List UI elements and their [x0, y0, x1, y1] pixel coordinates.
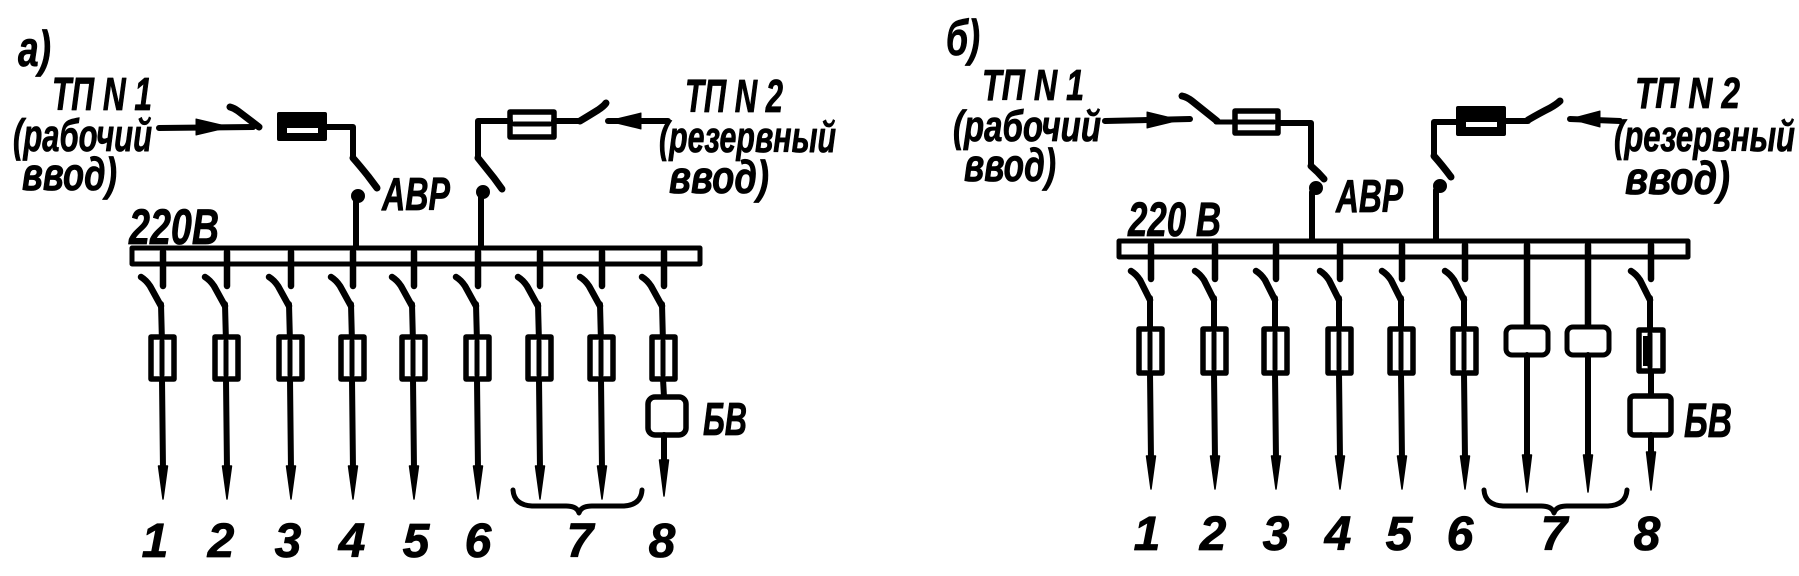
wire: bus tap tick feeder 2 — [224, 252, 231, 286]
svg-text:ввод): ввод) — [964, 139, 1056, 191]
svg-text:4: 4 — [338, 515, 366, 568]
fuse feeder 8 — [652, 337, 675, 379]
node: AVR-1 contact dot, diagram a — [352, 190, 365, 203]
wire: bus tap tick feeder 1 — [160, 252, 167, 286]
bracket (group 7), diagram a — [513, 490, 642, 513]
arrow tip feeder 5 — [410, 466, 419, 499]
svg-text:7: 7 — [567, 515, 596, 568]
switch blade feeder 5 — [392, 277, 412, 306]
wire feeder b5 upper — [1398, 298, 1404, 335]
wire: input 2 with left arrow, diagram b — [1570, 111, 1620, 127]
switch blade feeder 1 — [141, 277, 161, 306]
fuse feeder 5 — [402, 337, 425, 379]
label BV, diagram b — [1684, 395, 1732, 448]
arrow tip feeder 3 — [287, 466, 296, 499]
bus 220V, diagram a — [132, 248, 700, 264]
svg-text:6: 6 — [1447, 508, 1474, 561]
wire feeder 7a lower — [539, 379, 540, 470]
diagram b) label — [946, 10, 980, 66]
arrow tip feeder 7b — [598, 466, 607, 499]
switch blade feeder 8 — [642, 277, 662, 306]
wire feeder b1 upper — [1147, 298, 1153, 335]
svg-text:АВР: АВР — [1335, 170, 1403, 222]
svg-text:ввод): ввод) — [669, 151, 769, 203]
load numbers 1-8, diagram b — [1134, 508, 1661, 561]
svg-text:8: 8 — [1634, 508, 1661, 561]
wire feeder 1 lower — [162, 379, 163, 470]
arrow tip feeder b2 — [1211, 456, 1220, 489]
wire feeder b7b (no switch) — [1585, 245, 1592, 329]
label AVR, diagram a — [381, 168, 450, 220]
switch blade feeder 3 — [269, 277, 289, 306]
arrow tip feeder 8 — [660, 460, 669, 496]
node: AVR-2 contact dot, diagram a — [477, 186, 490, 199]
switch blade feeder 7b — [580, 277, 600, 306]
wire feeder 6 upper — [476, 304, 477, 343]
svg-text:1: 1 — [142, 515, 169, 568]
wire: bus tap tick feeder 4 — [350, 252, 357, 286]
wire feeder b8 to BV box — [1648, 371, 1654, 397]
switch blade feeder b6 — [1445, 271, 1464, 300]
wire: input 1 with right arrow, diagram b — [1105, 112, 1190, 128]
svg-text:5: 5 — [403, 515, 431, 568]
svg-text:4: 4 — [1324, 508, 1352, 561]
arrow tip feeder b6 — [1461, 456, 1470, 489]
label BV, diagram a — [703, 393, 747, 445]
wire: bus tap tick feeder b8 — [1648, 245, 1655, 279]
fuse feeder 1 — [151, 337, 174, 379]
wire feeder b4 upper — [1336, 298, 1342, 335]
fuse feeder 2 — [215, 337, 238, 379]
wire feeder b4 lower — [1339, 373, 1340, 460]
wire feeder 2 upper — [225, 304, 226, 343]
fuse feeder 3 — [279, 337, 302, 379]
fuse feeder 4 — [341, 337, 364, 379]
wire: bus tap tick feeder 3 — [288, 252, 295, 286]
wire feeder b2 lower — [1214, 373, 1215, 460]
wire: input 1 with right arrow, diagram a — [159, 119, 253, 135]
label TP N2 (reserve input), diagram a — [659, 70, 836, 203]
switch blade feeder b5 — [1382, 271, 1401, 300]
svg-text:БВ: БВ — [1684, 395, 1732, 448]
wire: bus tap tick feeder 7a — [537, 252, 544, 286]
wire feeder 4 lower — [352, 379, 353, 470]
switch Q1 blade (input 1), diagram a — [230, 107, 259, 127]
switch blade feeder b8 — [1631, 271, 1650, 300]
label 220V, diagram a — [128, 199, 219, 255]
fuse feeder 6 — [466, 337, 489, 379]
wire feeder 6 lower — [477, 379, 478, 470]
fuse feeder b6 — [1453, 329, 1476, 373]
arrow tip feeder 4 — [349, 466, 358, 499]
wire: fuse F1 to corner, down, diagram a — [325, 127, 353, 158]
bus 220V, diagram b — [1119, 241, 1688, 257]
arrow tip feeder 6 — [474, 466, 483, 499]
fuse feeder b1 — [1139, 329, 1162, 373]
label 220V, diagram b — [1127, 194, 1221, 247]
arrow tip feeder b4 — [1336, 456, 1345, 489]
wire feeder 7b lower — [601, 379, 602, 470]
switch blade feeder 2 — [205, 277, 225, 306]
wire: AVR-2 drop to bus, diagram a — [478, 195, 484, 250]
node: AVR-2 contact dot, diagram b — [1434, 180, 1447, 193]
wire: bus tap tick feeder b3 — [1273, 245, 1280, 279]
wire: bus tap tick feeder 5 — [411, 252, 418, 286]
fuse feeder 7b — [590, 337, 613, 379]
svg-text:8: 8 — [649, 515, 676, 568]
label TP N1 (working input), diagram b — [953, 61, 1101, 191]
wire: corner to fuse F2, diagram b — [1434, 121, 1528, 156]
wire: bus tap tick feeder 6 — [475, 252, 482, 286]
arrow tip feeder b3 — [1272, 456, 1281, 489]
switch blade feeder 7a — [518, 277, 538, 306]
switch AVR-2 blade, diagram b — [1434, 156, 1451, 177]
svg-text:6: 6 — [465, 515, 492, 568]
label AVR, diagram b — [1335, 170, 1403, 222]
svg-text:2: 2 — [1199, 508, 1227, 561]
switch Q2 blade (input 2), diagram b — [1528, 101, 1560, 120]
label TP N2 (reserve input), diagram b — [1614, 69, 1795, 204]
wire: bus tap tick feeder 8 — [661, 252, 668, 286]
wire feeder 1 upper — [161, 304, 162, 343]
switch blade feeder b2 — [1195, 271, 1214, 300]
switch Q2 blade (input 2), diagram a — [580, 103, 606, 121]
fuse feeder b3 — [1264, 329, 1287, 373]
svg-text:3: 3 — [275, 515, 302, 568]
wire: AVR-1 drop to bus, diagram a — [353, 199, 359, 250]
arrow tip feeder 1 — [159, 466, 168, 499]
fuse F1 (input 1, filled), diagram a — [279, 114, 325, 139]
wire feeder 8 lower — [661, 435, 667, 462]
wire: bus tap tick feeder 7b — [599, 252, 606, 286]
fuse feeder b8 (filled) — [1639, 330, 1663, 371]
switch AVR-1 blade, diagram b — [1311, 166, 1324, 179]
wire: input 2 with left arrow, diagram a — [608, 113, 668, 129]
svg-text:ТП N 2: ТП N 2 — [1635, 69, 1740, 118]
arrow tip feeder 2 — [223, 466, 232, 499]
wire feeder 2 lower — [226, 379, 227, 470]
breaker box feeder b7a — [1506, 327, 1548, 355]
wire: AVR-2 drop to bus, diagram b — [1433, 190, 1439, 243]
fuse feeder b4 — [1328, 329, 1351, 373]
wire: bus tap tick feeder b1 — [1148, 245, 1155, 279]
switch AVR-1 blade, diagram a — [353, 158, 377, 188]
wire: bus tap tick feeder b5 — [1399, 245, 1406, 279]
wire feeder b3 upper — [1272, 298, 1278, 335]
fuse feeder 7a — [528, 337, 551, 379]
wire feeder 4 upper — [351, 304, 352, 343]
svg-text:а): а) — [18, 21, 51, 77]
fuse F2 (input 2), diagram a — [510, 112, 554, 137]
svg-text:б): б) — [946, 10, 980, 66]
arrow tip feeder b5 — [1398, 456, 1407, 489]
wire: corner to fuse F2, diagram a — [478, 121, 580, 158]
arrow tip feeder 7a — [536, 466, 545, 499]
svg-text:1: 1 — [1134, 508, 1161, 561]
wire feeder 7a upper — [538, 304, 539, 343]
breaker box feeder b7b — [1567, 327, 1609, 355]
node: AVR-1 contact dot, diagram b — [1310, 182, 1323, 195]
switch blade feeder b4 — [1320, 271, 1339, 300]
wire feeder 8 upper — [662, 304, 663, 343]
svg-text:5: 5 — [1386, 508, 1414, 561]
svg-text:АВР: АВР — [381, 168, 450, 220]
svg-text:БВ: БВ — [703, 393, 747, 445]
wire: AVR-1 drop to bus, diagram b — [1309, 192, 1315, 243]
wire feeder 7b upper — [600, 304, 601, 343]
fuse F1 (input 1), diagram b — [1216, 111, 1278, 133]
switch AVR-2 blade, diagram a — [478, 158, 502, 189]
wire feeder 8 to BV box — [663, 379, 664, 397]
arrow tip feeder b8 — [1647, 452, 1656, 490]
bracket (group 7), diagram b — [1484, 490, 1627, 513]
wire feeder 3 lower — [290, 379, 291, 470]
wire: bus tap tick feeder b4 — [1337, 245, 1344, 279]
svg-text:2: 2 — [207, 515, 235, 568]
wire feeder b7b lower — [1585, 355, 1591, 455]
svg-text:ввод): ввод) — [22, 148, 117, 200]
svg-text:3: 3 — [1263, 508, 1290, 561]
wire feeder 5 lower — [413, 379, 414, 470]
arrow tip feeder b7b — [1584, 455, 1593, 492]
fuse F2 (input 2, filled), diagram b — [1458, 108, 1504, 134]
wire feeder b8 lower — [1648, 435, 1654, 455]
wire: bus tap tick feeder b6 — [1462, 245, 1469, 279]
fuse feeder b2 — [1203, 329, 1226, 373]
diagram a) label — [18, 21, 51, 77]
svg-text:ввод): ввод) — [1625, 152, 1730, 204]
wire feeder b3 lower — [1275, 373, 1276, 460]
wire feeder b7a lower — [1524, 355, 1530, 455]
wire: bus tap tick feeder b2 — [1212, 245, 1219, 279]
switch blade feeder b1 — [1131, 271, 1150, 300]
load numbers 1-8, diagram a — [142, 515, 676, 568]
arrow tip feeder b7a — [1523, 455, 1532, 492]
wire feeder b7a (no switch) — [1524, 245, 1531, 329]
switch blade feeder b3 — [1256, 271, 1275, 300]
fuse feeder b5 — [1390, 329, 1413, 373]
switch blade feeder 6 — [456, 277, 476, 306]
wire feeder b6 lower — [1464, 373, 1465, 460]
wire feeder b8 upper — [1647, 298, 1653, 334]
wire feeder b1 lower — [1150, 373, 1151, 460]
svg-text:7: 7 — [1541, 508, 1570, 561]
wire feeder b6 upper — [1461, 298, 1467, 335]
wire feeder b5 lower — [1401, 373, 1402, 460]
arrow tip feeder b1 — [1147, 456, 1156, 489]
switch blade feeder 4 — [331, 277, 351, 306]
wire feeder b2 upper — [1211, 298, 1217, 335]
wire feeder 5 upper — [412, 304, 413, 343]
device BV (rectifier) box, diagram b — [1630, 396, 1671, 435]
wire feeder 3 upper — [289, 304, 290, 343]
wire: fuse F1 to corner, down, diagram b — [1278, 123, 1311, 166]
switch Q1 blade (input 1), diagram b — [1182, 96, 1217, 121]
label TP N1 (working input), diagram a — [13, 68, 152, 200]
device BV (rectifier) box, diagram a — [648, 397, 686, 435]
